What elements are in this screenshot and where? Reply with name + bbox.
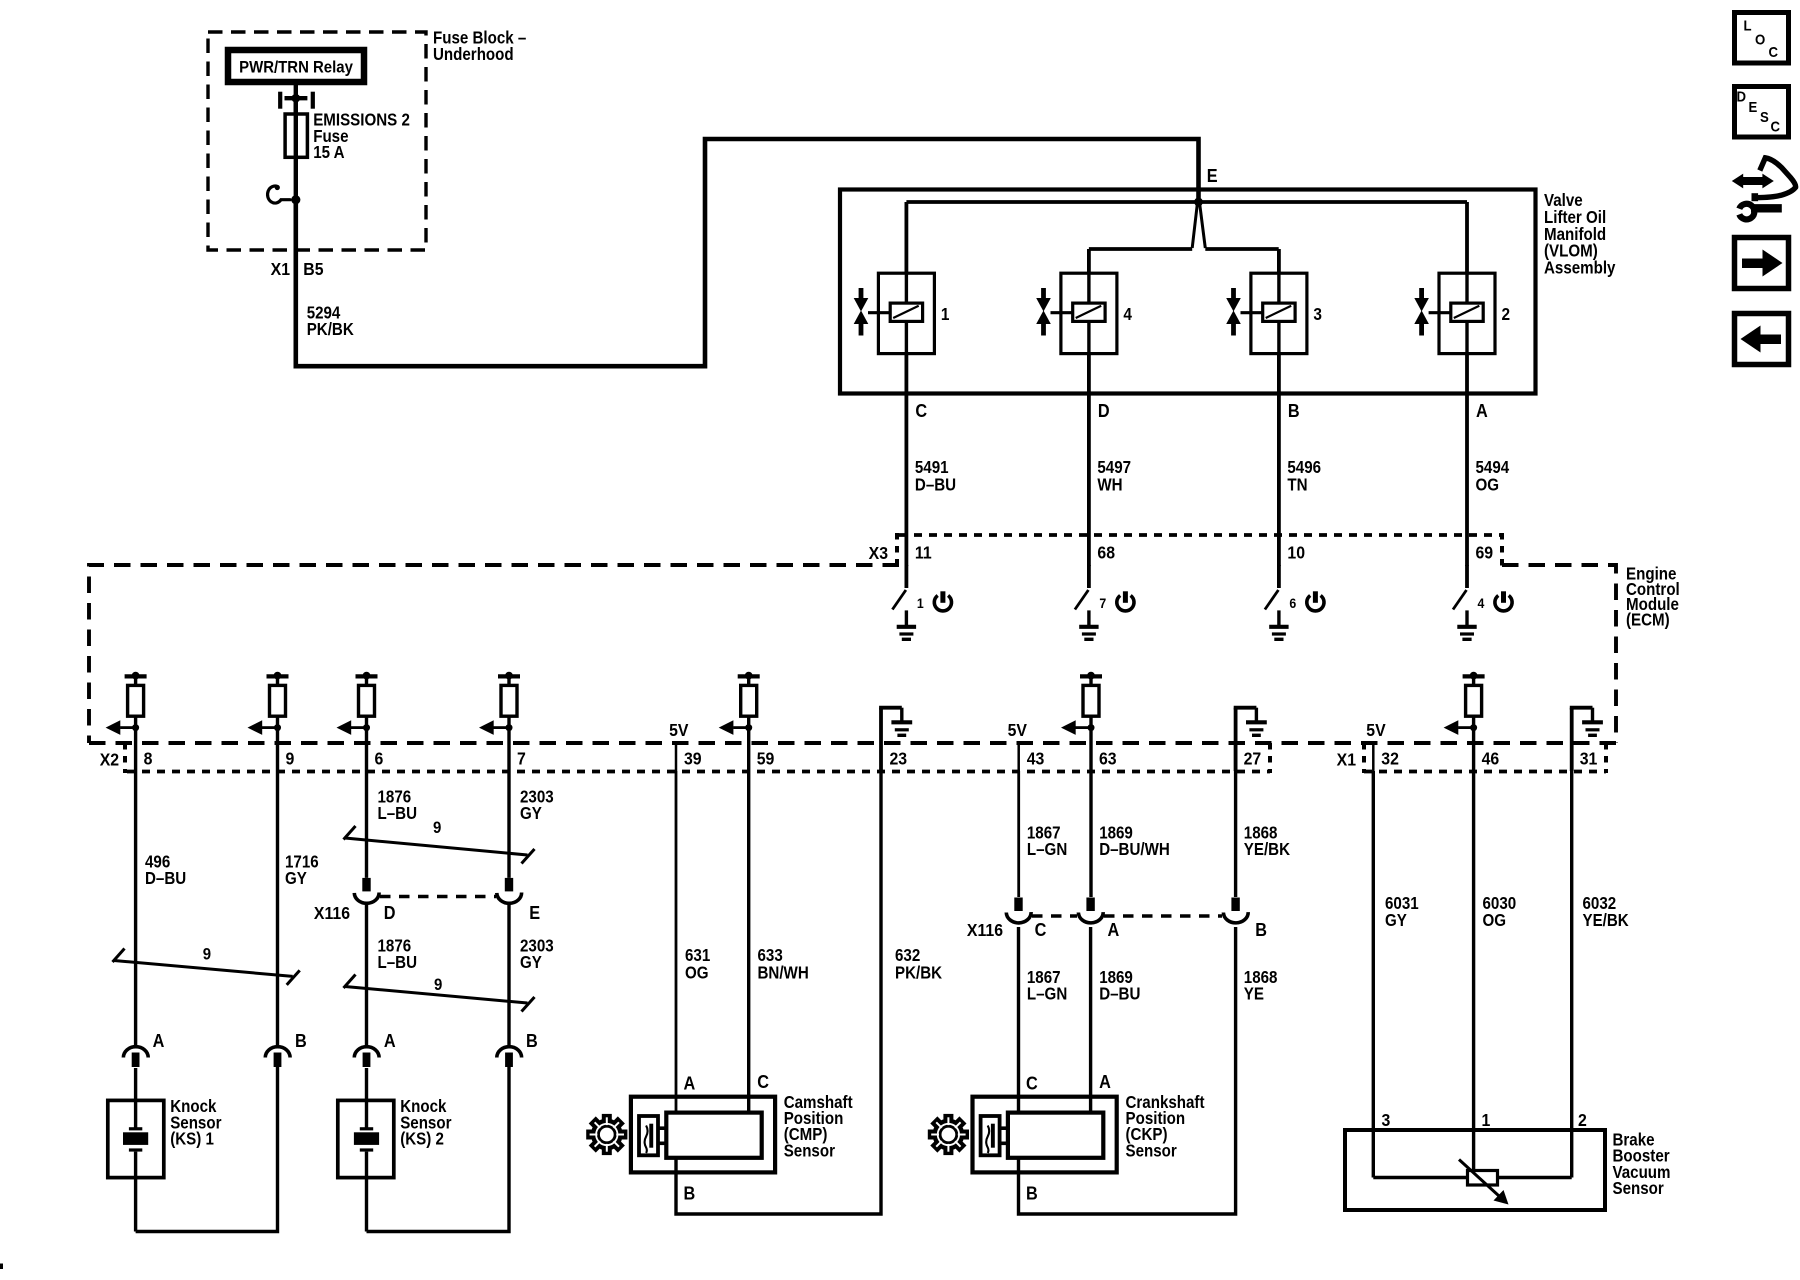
power (ignition) icon [1117, 591, 1134, 611]
svg-text:X3: X3 [869, 543, 888, 563]
svg-text:D: D [1098, 400, 1110, 421]
VLOM assembly box [840, 190, 1536, 394]
svg-text:C: C [757, 1071, 769, 1092]
wire pin 9 to KS1 B [276, 743, 279, 1046]
connector X2 row [125, 743, 1270, 773]
svg-text:D: D [384, 902, 396, 923]
svg-text:632: 632 [895, 946, 920, 965]
svg-text:9: 9 [433, 819, 441, 837]
svg-text:OG: OG [1476, 476, 1500, 495]
svg-text:15 A: 15 A [313, 143, 345, 162]
svg-text:PK/BK: PK/BK [307, 320, 354, 339]
right arrow [1742, 250, 1783, 277]
svg-text:5V: 5V [669, 720, 689, 740]
svg-text:YE: YE [1244, 985, 1264, 1004]
reroute arrow + wrench icon [1732, 158, 1796, 220]
wire X116 D to KS2 A [365, 904, 368, 1047]
svg-text:A: A [684, 1073, 696, 1094]
svg-text:B: B [1255, 919, 1267, 940]
svg-text:E: E [1207, 165, 1218, 186]
svg-text:68: 68 [1097, 543, 1115, 563]
svg-text:9: 9 [203, 946, 211, 964]
svg-text:4: 4 [1123, 305, 1132, 324]
ground arm at x=1571.7 [1570, 708, 1603, 771]
svg-text:O: O [1755, 31, 1765, 48]
svg-text:5496: 5496 [1287, 458, 1321, 477]
svg-text:9: 9 [286, 749, 295, 769]
switch + ground, pin label 4 [1453, 565, 1477, 639]
magnet element [639, 1116, 666, 1155]
svg-text:L: L [1744, 17, 1752, 34]
wire middle rail (solenoid 4-3) [1089, 247, 1192, 251]
wire 5V pin 32 to BBV 3 [1372, 771, 1375, 1178]
twisted pair marker KS2 lower (9) [344, 975, 535, 1012]
svg-text:5497: 5497 [1097, 458, 1131, 477]
connector X116 (C/A/B) [1006, 898, 1031, 923]
wire inner rail (solenoid 1-2) [906, 200, 1467, 204]
twisted pair marker KS1 (9) [113, 949, 300, 985]
svg-text:5491: 5491 [915, 458, 949, 477]
svg-text:X1: X1 [1337, 750, 1356, 770]
wire 5V pin 39 to CMP A [675, 771, 678, 1113]
artifact mark (left edge) [0, 1264, 3, 1270]
sensor element box [666, 1113, 761, 1158]
wire knock sensor return [367, 1060, 510, 1232]
relay terminal symbol [278, 92, 315, 109]
wire drop to solenoid 3 [1277, 249, 1281, 273]
wire fork from E [1192, 204, 1205, 248]
switch + ground, pin label 1 [892, 565, 916, 639]
svg-text:(KS) 2: (KS) 2 [400, 1130, 444, 1149]
knock sensor box (KS) 2 [338, 1068, 394, 1232]
wire X116 C to CKP C [1017, 927, 1020, 1113]
resistor + arrow at x=748.7 [719, 672, 760, 743]
svg-text:B5: B5 [303, 259, 323, 279]
wire pin 7 to X116 E [507, 743, 510, 878]
switch + ground, pin label 7 [1075, 565, 1099, 639]
svg-text:A: A [1099, 1071, 1111, 1092]
DESC icon box [1735, 87, 1789, 138]
wire pin 46 to BBV 1 (wiper) [1472, 743, 1475, 1172]
svg-text:9: 9 [434, 976, 442, 994]
5V wire stub [675, 743, 678, 771]
svg-text:GY: GY [520, 804, 542, 823]
solenoid 3 [1226, 273, 1307, 353]
Crankshaft sensor outer box [973, 1097, 1117, 1173]
wire X116 E to KS2 B [507, 904, 510, 1047]
svg-text:C: C [1769, 43, 1779, 60]
svg-text:BN/WH: BN/WH [758, 964, 809, 983]
svg-text:43: 43 [1027, 749, 1045, 769]
svg-text:46: 46 [1482, 749, 1500, 769]
svg-text:631: 631 [685, 946, 710, 965]
svg-text:X2: X2 [100, 750, 119, 770]
svg-text:B: B [684, 1183, 696, 1204]
svg-text:E: E [1749, 98, 1758, 115]
sensor cup at x=366.5 [354, 1047, 379, 1067]
ECM box (Engine Control Module) [89, 565, 1616, 743]
svg-text:L–GN: L–GN [1027, 840, 1067, 859]
svg-text:B: B [1288, 400, 1300, 421]
svg-text:8: 8 [144, 749, 153, 769]
next (right arrow) icon box [1735, 238, 1789, 289]
wiper arrow [1459, 1160, 1509, 1205]
resistor + arrow at x=277.5 [248, 672, 289, 743]
svg-text:Sensor: Sensor [1126, 1141, 1178, 1160]
sensor cup at x=135.6 [123, 1047, 148, 1067]
svg-text:GY: GY [285, 869, 307, 888]
svg-text:B: B [295, 1030, 307, 1051]
svg-text:L–GN: L–GN [1027, 985, 1067, 1004]
power (ignition) icon [1307, 591, 1324, 611]
magnet element [981, 1116, 1008, 1155]
svg-text:C: C [1026, 1073, 1038, 1094]
svg-text:27: 27 [1244, 749, 1262, 769]
svg-text:63: 63 [1099, 749, 1117, 769]
wire solenoid 2 to X3 [1465, 354, 1469, 566]
resistor + arrow at x=1091 [1061, 672, 1102, 743]
svg-text:1: 1 [917, 595, 924, 611]
wire pin 6 to X116 D [365, 743, 368, 878]
svg-text:69: 69 [1476, 543, 1494, 563]
svg-text:X116: X116 [967, 920, 1003, 940]
wire knock sensor return [136, 1060, 278, 1232]
wire solenoid 3 to X3 [1277, 354, 1281, 566]
X116 C-A / A-B dashed links [1032, 914, 1077, 918]
solenoid 4 [1036, 273, 1117, 353]
resistor + arrow at x=366.5 [337, 672, 378, 743]
potentiometer track [1373, 1176, 1571, 1179]
power (ignition) icon [934, 591, 951, 611]
svg-text:5494: 5494 [1476, 458, 1510, 477]
svg-text:39: 39 [684, 749, 702, 769]
svg-text:A: A [1108, 919, 1120, 940]
svg-text:WH: WH [1097, 476, 1122, 495]
svg-text:A: A [1476, 400, 1488, 421]
wire drop to solenoid 2 [1465, 202, 1469, 273]
wire pin 31 to BBV 2 [1570, 771, 1573, 1178]
sensor element box [1008, 1113, 1103, 1158]
svg-text:B: B [1026, 1183, 1038, 1204]
wire pin 27 to X116 B [1234, 743, 1237, 897]
solenoid 1 [854, 273, 935, 353]
svg-text:31: 31 [1580, 749, 1598, 769]
svg-text:5V: 5V [1366, 720, 1386, 740]
wire CKP B return via X116 B [1019, 927, 1236, 1214]
svg-text:1: 1 [1482, 1110, 1491, 1130]
svg-text:C: C [915, 400, 927, 421]
knock sensor box (KS) 1 [108, 1068, 164, 1232]
svg-text:B: B [526, 1030, 538, 1051]
gear icon (Camshaft) [586, 1114, 627, 1155]
svg-text:3: 3 [1313, 305, 1322, 324]
svg-text:C: C [1771, 118, 1781, 135]
svg-text:Assembly: Assembly [1544, 259, 1615, 278]
svg-text:TN: TN [1287, 476, 1307, 495]
svg-text:A: A [384, 1030, 396, 1051]
svg-text:3: 3 [1382, 1110, 1391, 1130]
wire CMP B return to pin 23 [676, 771, 881, 1214]
splice hook symbol [268, 185, 301, 204]
svg-text:YE/BK: YE/BK [1583, 911, 1630, 930]
connector X1 row [1364, 743, 1606, 773]
switch + ground, pin label 6 [1265, 565, 1289, 639]
svg-text:6: 6 [1289, 595, 1296, 611]
svg-text:L–BU: L–BU [378, 953, 418, 972]
brake booster vacuum sensor box [1345, 1130, 1605, 1210]
svg-text:PK/BK: PK/BK [895, 964, 942, 983]
relay K1 PWR/TRN Relay [228, 50, 364, 82]
5V wire stub [1372, 743, 1375, 771]
wire relay to fuse [294, 85, 298, 114]
wire drop to solenoid 4 [1087, 249, 1091, 273]
X116 D-E dashed link [380, 895, 496, 899]
svg-text:A: A [153, 1030, 165, 1051]
svg-text:S: S [1760, 108, 1769, 125]
svg-text:59: 59 [757, 749, 775, 769]
LOC icon box [1735, 13, 1789, 64]
svg-text:32: 32 [1381, 749, 1399, 769]
svg-text:5V: 5V [1008, 720, 1028, 740]
svg-text:4: 4 [1478, 595, 1485, 611]
svg-text:GY: GY [520, 953, 542, 972]
svg-text:L–BU: L–BU [378, 804, 418, 823]
5V wire stub [1017, 743, 1020, 771]
svg-text:D: D [1737, 88, 1747, 105]
solenoid 2 [1414, 273, 1495, 353]
sensor cup at x=509 [497, 1047, 522, 1067]
resistor + arrow at x=135.6 [106, 672, 147, 743]
svg-text:11: 11 [915, 543, 932, 563]
twisted pair marker KS2 upper (9) [344, 826, 535, 864]
svg-text:7: 7 [1099, 595, 1106, 611]
svg-text:X1: X1 [271, 259, 290, 279]
svg-text:2: 2 [1578, 1110, 1587, 1130]
svg-text:(ECM): (ECM) [1626, 611, 1670, 630]
svg-text:OG: OG [1483, 911, 1507, 930]
fuse EMISSIONS 2 15A [285, 114, 307, 157]
svg-text:633: 633 [758, 946, 783, 965]
wire 5V pin 43 to X116 C [1017, 771, 1020, 897]
svg-text:(KS) 1: (KS) 1 [170, 1130, 214, 1149]
svg-text:OG: OG [685, 964, 709, 983]
power (ignition) icon [1495, 591, 1512, 611]
svg-text:D–BU/WH: D–BU/WH [1099, 840, 1170, 859]
Camshaft sensor outer box [631, 1097, 775, 1173]
svg-text:X116: X116 [314, 903, 350, 923]
svg-text:Underhood: Underhood [433, 45, 514, 64]
connector X3 row [897, 533, 1502, 566]
svg-text:23: 23 [890, 749, 908, 769]
svg-text:PWR/TRN Relay: PWR/TRN Relay [239, 59, 353, 77]
svg-text:D–BU: D–BU [145, 869, 186, 888]
svg-text:YE/BK: YE/BK [1244, 840, 1291, 859]
wire X116 A to CKP A [1089, 927, 1092, 1113]
wire pin 63 to X116 A [1089, 743, 1092, 897]
svg-text:D–BU: D–BU [915, 476, 956, 495]
left arrow [1741, 326, 1782, 353]
wire through fuse [294, 102, 298, 200]
svg-text:Sensor: Sensor [1613, 1179, 1665, 1198]
wire solenoid 4 to X3 [1087, 354, 1091, 566]
resistor + arrow at x=1473.6 [1444, 672, 1485, 743]
svg-text:C: C [1035, 919, 1047, 940]
ground arm at x=1235.6 [1234, 708, 1267, 771]
potentiometer element [1468, 1171, 1498, 1186]
svg-text:D–BU: D–BU [1099, 985, 1140, 1004]
svg-text:2: 2 [1502, 305, 1511, 324]
svg-text:E: E [529, 902, 540, 923]
svg-text:7: 7 [517, 749, 526, 769]
wire drop to solenoid 1 [905, 202, 909, 273]
gear icon (Crankshaft) [928, 1114, 969, 1155]
connector X116 (D/E) [354, 878, 379, 903]
wire pin 8 to KS1 A [134, 743, 137, 1046]
svg-text:Sensor: Sensor [784, 1141, 836, 1160]
sensor cup at x=277.5 [265, 1047, 290, 1067]
ground arm at x=881 [879, 708, 912, 771]
wire: fuse block to VLOM feed [296, 139, 1199, 366]
svg-text:10: 10 [1287, 543, 1305, 563]
wire pin 59 to CMP C [747, 743, 750, 1113]
wire solenoid 1 to X3 [905, 354, 909, 566]
svg-text:1: 1 [941, 305, 950, 324]
resistor + arrow at x=509 [479, 672, 520, 743]
svg-text:GY: GY [1385, 911, 1407, 930]
back (left arrow) icon box [1735, 314, 1789, 365]
svg-text:6: 6 [375, 749, 384, 769]
fuse block box (Fuse Block - Underhood) [208, 32, 426, 250]
